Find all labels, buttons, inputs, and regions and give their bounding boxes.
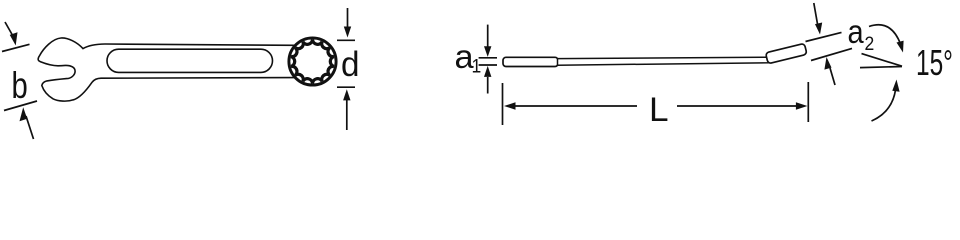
dimension a2 upper tick [806, 32, 842, 41]
ring end outer circle [289, 38, 336, 85]
dimension L extension line left [502, 83, 504, 125]
svg-text:a: a [848, 13, 865, 50]
dimension a1 upper tick [479, 57, 497, 59]
dimension a1 lower arrow [487, 77, 489, 94]
dimension d top arrow [347, 8, 349, 28]
dimension d bottom tick [337, 86, 355, 88]
dimension b lower tick [4, 101, 37, 111]
dimension a2 lower tick [811, 48, 852, 60]
svg-text:2: 2 [865, 32, 875, 54]
dimension a1 upper arrow [487, 25, 489, 47]
dimension a2 lower arrow [830, 68, 835, 85]
dimension d top tick [337, 39, 355, 41]
ring end 12-point inner profile [291, 39, 334, 83]
15 degree wedge upper line [862, 54, 903, 67]
dimension L extension line right [807, 82, 809, 122]
svg-text:15°: 15° [916, 42, 953, 83]
15 degree wedge lower line [860, 67, 902, 68]
angle arc arrow top [869, 25, 901, 44]
svg-text:L: L [649, 90, 669, 129]
dimension L left arrowhead [504, 102, 516, 109]
svg-text:d: d [341, 45, 359, 84]
dimension b upper arrow [5, 22, 14, 37]
svg-text:b: b [12, 66, 28, 107]
dimension L right arrowhead [796, 102, 808, 109]
dimension b upper tick [2, 44, 30, 51]
dimension d bottom arrow [346, 99, 348, 130]
dimension L line right segment [677, 105, 798, 107]
wrench front view: open-end head outline [38, 38, 295, 101]
side view: open-end head block [503, 57, 558, 66]
dimension L line left segment [514, 105, 637, 107]
dimension a2 upper arrow [814, 3, 818, 24]
side view: ring head capsule (tilted 15deg) [765, 43, 807, 63]
angle arc arrow bottom [872, 90, 896, 121]
side view: shank bar [558, 57, 770, 65]
wrench shank slot (oval) [107, 49, 273, 72]
dimension b lower arrow [26, 116, 34, 139]
dimension a1 lower tick [479, 64, 497, 66]
